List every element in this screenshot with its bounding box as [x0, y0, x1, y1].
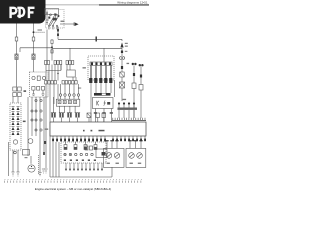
junction node: [51, 46, 53, 48]
regulator components: [32, 76, 46, 90]
label 30: [23, 121, 26, 123]
relay box lower-left: [23, 150, 30, 156]
comb bus wires: [50, 142, 59, 177]
alternator rotor circle: [13, 140, 17, 144]
stub into bulkhead box: [103, 48, 105, 62]
relay row 1 group C: [66, 61, 74, 65]
instrument box T1: [104, 148, 125, 167]
dashed box bulkhead connector: [88, 56, 114, 80]
ground G4: [16, 172, 19, 176]
injectors row: [64, 142, 97, 150]
relay row 1 group A: [45, 61, 50, 65]
label 4W: [83, 67, 86, 68]
injector label marks: [64, 160, 96, 161]
wire top bus y32: [58, 27, 122, 42]
PDF badge: [0, 0, 46, 24]
sensor pair S3: [67, 113, 72, 118]
wires below strip: [46, 84, 58, 168]
wire ignition to terminal: [60, 23, 74, 25]
wire x47 down: [46, 30, 48, 61]
ECU lower stubs right: [112, 136, 146, 141]
bulkhead wires to ECU: [91, 83, 111, 122]
sensor pair S2: [59, 113, 64, 118]
ignition cluster with bar: [118, 102, 138, 118]
harness wires middle-left: [28, 97, 44, 172]
ignition switch contacts: [46, 13, 59, 29]
terminal connector dark: [74, 22, 79, 26]
alternator diodes column 2: [17, 107, 20, 135]
ECU box Motronic: [50, 122, 146, 136]
fuse F3: [51, 40, 53, 44]
stubs into instrument boxes: [105, 140, 142, 148]
label 500: [61, 21, 65, 22]
ignition switch body: [53, 18, 57, 21]
box 660 distributor: [93, 98, 114, 109]
instrument box T2: [126, 148, 146, 167]
relay block 50: [13, 87, 21, 97]
label M-lower: [25, 157, 28, 158]
link wire row2: [46, 65, 61, 71]
component row 5: [56, 99, 80, 106]
label 705: [45, 129, 48, 130]
ground G1: [44, 169, 47, 173]
ground G3: [11, 172, 14, 176]
wire bus y49: [52, 48, 122, 61]
fuse F1: [15, 37, 18, 41]
relay K box: [67, 70, 75, 77]
wires row5 down: [54, 97, 76, 113]
relay row 1 group B: [54, 61, 62, 65]
label 760: [123, 99, 127, 100]
sensor k2: [87, 113, 91, 118]
contact circles row b: [31, 110, 42, 112]
injector middle row contacts: [64, 146, 93, 156]
svg-text:Engine electrical system – M6: Engine electrical system – M6 or non-cat…: [35, 187, 111, 191]
wire supply-left-1: [16, 24, 18, 88]
wire feed into ignition box: [46, 11, 48, 26]
dashed box alternator: [10, 103, 21, 150]
bulkhead pin bar: [90, 62, 112, 66]
chain lambda x122: [120, 51, 128, 102]
end mark x44: [43, 152, 45, 155]
contact circles row a: [35, 99, 42, 101]
header page title text: [117, 1, 148, 5]
small component x52: [51, 50, 53, 53]
contact circles row d: [35, 129, 42, 131]
node row2: [57, 73, 58, 74]
scale number smudges: [5, 178, 142, 180]
chain sensor x134: [132, 63, 137, 118]
contact circles row c: [31, 119, 42, 121]
wire fuse column: [51, 39, 53, 60]
sensor stems to ECU: [54, 118, 104, 123]
wire relay to alternator: [13, 91, 18, 103]
bottom bus wire: [50, 167, 112, 177]
warning lamp symbol: [120, 42, 127, 47]
svg-text:Wiring diagrams 12•51: Wiring diagrams 12•51: [117, 1, 148, 5]
sensor pair S4: [75, 113, 80, 118]
ECU pin row: [112, 118, 146, 121]
sensor small boxes: [96, 113, 106, 118]
inline connector x96: [96, 37, 97, 42]
starter motor M: [28, 165, 35, 172]
header rule: [44, 4, 149, 6]
row1 to row2 wires: [46, 65, 76, 81]
current track scale: [5, 181, 141, 183]
wires below injector box: [65, 163, 102, 170]
fuse F2: [32, 37, 35, 41]
alternator output wires to ground: [13, 150, 18, 172]
distributor foot stubs: [94, 109, 113, 114]
busbar wire y47: [20, 48, 52, 52]
dashed box injector cluster: [61, 142, 106, 163]
chain sensor x141: [139, 64, 144, 118]
ignition switch top block: [45, 9, 59, 15]
ground G5: [38, 173, 41, 176]
dashed stub with junction node: [33, 29, 45, 33]
switch column contacts: [57, 29, 59, 36]
connector strip row 3 left: [45, 81, 57, 85]
wire supply-left-2: [33, 24, 35, 73]
dashed box ignition switch: [46, 10, 65, 29]
ECU internal glyphs: [83, 130, 105, 132]
component mark x44 upper: [44, 141, 46, 144]
regulator ground symbols: [32, 91, 45, 96]
dashed wire segment: [38, 155, 40, 175]
wire to starter: [30, 156, 32, 164]
dashed box voltage regulator: [30, 72, 49, 97]
connector pair on left wire 2: [32, 54, 35, 60]
contact circle x15: [14, 151, 17, 154]
sensor pair S1: [51, 113, 56, 118]
distributor header bar: [94, 93, 111, 96]
bulkhead pin marks: [89, 78, 112, 83]
ECU lower stubs left: [52, 136, 106, 142]
switch circles row 4: [59, 84, 79, 100]
injector sub-box right: [96, 149, 107, 158]
label near strip: [78, 88, 81, 89]
ground G2: [42, 169, 45, 173]
connector pair on left wire 1: [15, 54, 18, 60]
connector strip row 3 right: [62, 81, 77, 85]
label 50: [24, 90, 27, 92]
bulkhead wire pairs down: [90, 66, 111, 81]
caption text: [35, 187, 111, 191]
alternator diodes column 1: [12, 107, 15, 135]
idle valve circle: [28, 139, 33, 144]
wire alternator B-minus: [8, 142, 10, 176]
label 40: [127, 63, 130, 64]
wires 660 box down: [95, 80, 114, 122]
